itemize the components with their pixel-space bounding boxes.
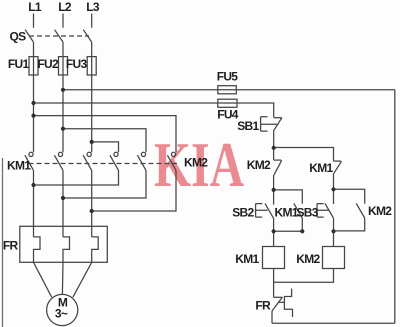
- contactor KM1 pole 2: [58, 152, 62, 156]
- wire node A to KM2 interlock: [273, 148, 275, 160]
- node L3 terminal: [91, 14, 93, 28]
- wire L3 to KM2 pole 1: [92, 142, 119, 152]
- fuse FU4: [218, 99, 237, 107]
- heater FR phase 3: [92, 237, 99, 262]
- wire L1 vertical: [33, 42, 35, 152]
- wire KM1 pole1 down: [33, 170, 35, 237]
- edge artifact line: [2, 158, 4, 327]
- wire FR to bottom rail: [271, 311, 273, 323]
- svg-text:3~: 3~: [55, 307, 68, 321]
- svg-text:SB2: SB2: [232, 206, 254, 220]
- wire bottom rail: [272, 322, 395, 324]
- wire FU5 to right rail: [236, 89, 394, 91]
- wire KM1 pole3 down: [91, 170, 93, 237]
- wire KM2 interlock to node B1: [273, 175, 275, 190]
- svg-text:SB3: SB3: [297, 206, 319, 220]
- contactor KM2 pole 2: [141, 152, 145, 156]
- wire to FR contact: [273, 282, 275, 297]
- wire L3 vertical: [91, 42, 93, 152]
- wire right rail: [394, 90, 396, 323]
- contactor KM2 pole 1: [114, 152, 118, 156]
- wire L1 to KM2 pole 3: [34, 116, 177, 153]
- contactor KM2 pole 3: [171, 152, 175, 156]
- junction U: [31, 183, 35, 187]
- motor lead W: [73, 262, 92, 297]
- fuse FU1: [29, 57, 38, 75]
- wire SB2 down: [273, 218, 275, 231]
- heater FR phase 2: [63, 237, 70, 262]
- svg-text:KM1: KM1: [235, 252, 259, 266]
- wire KM1 interlock to node B2: [333, 173, 335, 189]
- svg-text:KM2: KM2: [247, 158, 271, 172]
- wire SB1 to node A: [273, 131, 275, 148]
- wire L2 to KM2 pole 2: [63, 129, 146, 153]
- svg-text:QS: QS: [10, 30, 27, 44]
- coil KM1: [263, 247, 285, 269]
- contactor KM1 pole 3: [87, 152, 91, 156]
- svg-text:L2: L2: [58, 0, 72, 14]
- svg-text:FU5: FU5: [217, 70, 239, 84]
- motor lead V: [61, 262, 64, 294]
- wire L1 to FU4: [34, 102, 218, 104]
- wire KM2 pole3 return to W: [92, 170, 176, 211]
- switch QS pole 3: [83, 30, 91, 42]
- svg-text:KM2: KM2: [368, 204, 392, 218]
- contact FR NC: [274, 296, 283, 298]
- wire L2 vertical: [62, 42, 64, 152]
- svg-text:KM1: KM1: [275, 206, 299, 220]
- contact KM2 interlock NC: [274, 159, 282, 161]
- fuse FU2: [59, 57, 68, 75]
- pushbutton SB3 contact: [333, 189, 335, 204]
- junction W: [90, 209, 94, 213]
- pushbutton SB2 contact: [273, 190, 275, 205]
- junction L1-FU4: [31, 101, 35, 105]
- wire KM2 aux rejoin: [334, 218, 365, 231]
- node B1: [272, 188, 276, 192]
- node B2: [331, 187, 335, 191]
- junction V: [61, 196, 65, 200]
- svg-text:FR: FR: [255, 299, 271, 313]
- wire to coil KM2: [333, 231, 335, 246]
- svg-text:KM1: KM1: [7, 159, 31, 173]
- wire FU4 to SB1: [237, 103, 274, 117]
- pushbutton SB1 contact: [274, 117, 282, 119]
- svg-text:SB1: SB1: [237, 119, 259, 133]
- contactor linkage dashed: [29, 163, 178, 165]
- motor lead U: [34, 262, 52, 297]
- switch QS linkage dashed: [29, 35, 89, 37]
- node A: [272, 146, 276, 150]
- svg-text:L3: L3: [86, 0, 100, 14]
- relay FR trip flag: [284, 289, 292, 318]
- heater FR phase 1: [34, 237, 41, 262]
- switch QS pole 1: [25, 30, 33, 42]
- wire SB3 down: [333, 218, 335, 231]
- node C1: [272, 229, 276, 233]
- svg-text:FU2: FU2: [37, 57, 59, 71]
- wire node A to KM1 interlock: [274, 148, 334, 162]
- relay FR box: [20, 226, 108, 262]
- svg-text:FU4: FU4: [217, 108, 239, 122]
- svg-text:KM1: KM1: [309, 161, 333, 175]
- wire coil KM2 bottom: [274, 269, 334, 283]
- wire coil KM1 bottom: [273, 269, 275, 283]
- junction L2-FU5: [61, 88, 65, 92]
- motor M: [47, 294, 78, 325]
- pushbutton SB2 actuator: [256, 204, 268, 218]
- svg-text:FR: FR: [3, 239, 19, 253]
- contact KM1 interlock NC: [334, 160, 342, 162]
- pushbutton SB3 actuator: [317, 204, 329, 218]
- fuse FU3: [87, 57, 96, 75]
- wire KM2 pole2 return to V: [63, 170, 146, 198]
- svg-text:KM2: KM2: [296, 252, 320, 266]
- wire rejoin branch1: [274, 230, 303, 232]
- wire KM1 pole2 down: [62, 170, 64, 237]
- svg-text:FU3: FU3: [66, 57, 88, 71]
- wire L2 to FU5: [63, 89, 218, 91]
- node C1b: [300, 229, 304, 233]
- fuse FU5: [218, 86, 237, 94]
- node L1 terminal: [33, 14, 35, 28]
- node L2 terminal: [62, 14, 64, 28]
- switch QS pole 2: [55, 30, 63, 42]
- node C2: [331, 229, 335, 233]
- wire KM2 pole1 return to U: [34, 170, 119, 185]
- pushbutton SB1 actuator: [261, 117, 277, 131]
- junction L3 feed: [90, 140, 94, 144]
- junction L2 feed: [61, 127, 65, 131]
- coil KM2: [323, 247, 345, 269]
- svg-text:KM2: KM2: [184, 155, 208, 169]
- svg-text:L1: L1: [28, 0, 42, 14]
- contact KM1 aux NO: [274, 190, 303, 204]
- junction L1 feed: [31, 114, 35, 118]
- wire KM1 aux down: [301, 218, 303, 231]
- contactor KM1 pole 1: [29, 152, 33, 156]
- contact KM2 aux NO: [334, 189, 365, 204]
- svg-text:FU1: FU1: [8, 57, 30, 71]
- wire to coil KM1: [273, 231, 275, 246]
